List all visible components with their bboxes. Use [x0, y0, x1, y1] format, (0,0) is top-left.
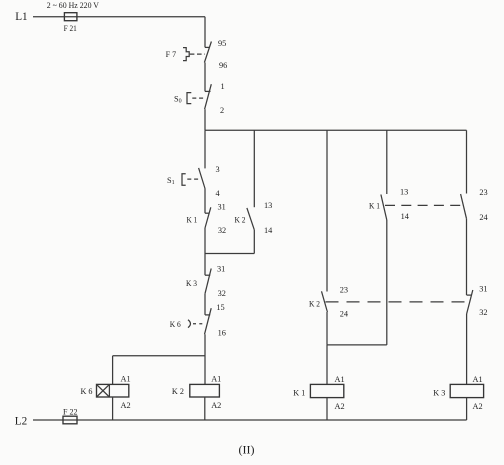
- svg-text:K 1: K 1: [293, 388, 305, 398]
- svg-text:A1: A1: [121, 374, 131, 383]
- svg-text:K 2: K 2: [172, 386, 184, 396]
- wire bus to S1: [204, 130, 206, 168]
- wire junction to K1 coil: [326, 345, 328, 385]
- svg-text:A2: A2: [211, 401, 221, 410]
- svg-text:A2: A2: [335, 402, 345, 411]
- svg-text:95: 95: [218, 39, 226, 48]
- svg-text:15: 15: [216, 303, 224, 312]
- wire bus corner to K1 23-24: [466, 130, 468, 193]
- wire L2 bus: [33, 419, 467, 421]
- dashed link K6: [193, 323, 204, 325]
- svg-text:2 ~ 60 Hz 220 V: 2 ~ 60 Hz 220 V: [47, 1, 100, 10]
- svg-text:K 2: K 2: [309, 299, 320, 309]
- svg-text:F 7: F 7: [166, 50, 177, 59]
- svg-text:S0: S0: [174, 94, 182, 104]
- wire L1 corner drop to F7: [204, 17, 206, 48]
- contact S1 NO 3-4: [199, 168, 205, 189]
- svg-text:31: 31: [479, 284, 487, 293]
- contact S0 NC 1-2: [205, 84, 212, 109]
- svg-text:F 22: F 22: [63, 408, 78, 417]
- wire top bus: [205, 129, 467, 131]
- svg-text:1: 1: [221, 82, 225, 91]
- svg-text:K 2: K 2: [235, 214, 246, 224]
- pushbutton actuator S1: [182, 174, 186, 186]
- wire K1 coil to L2: [326, 398, 328, 420]
- wire K1 aux to junction: [204, 228, 206, 254]
- wire K3 coil to L2: [466, 398, 468, 420]
- svg-text:A2: A2: [473, 402, 483, 411]
- svg-text:23: 23: [479, 188, 487, 197]
- wire K2 branch drop: [253, 130, 255, 207]
- dashed linkage K2 contacts: [326, 301, 465, 303]
- svg-text:31: 31: [218, 202, 226, 211]
- svg-text:(II): (II): [239, 443, 255, 457]
- svg-text:A2: A2: [121, 401, 131, 410]
- svg-text:K 6: K 6: [170, 319, 181, 329]
- wire K1 branch join: [327, 344, 387, 346]
- contact K1 NC 31-32: [205, 207, 211, 228]
- fuse F22: [63, 416, 77, 424]
- contact K2 NO 13-14: [247, 208, 254, 230]
- svg-text:24: 24: [340, 310, 349, 319]
- contact K2 NO 23-24: [322, 291, 328, 312]
- svg-text:32: 32: [479, 308, 487, 317]
- pushbutton actuator S0: [187, 93, 191, 104]
- svg-text:16: 16: [218, 328, 226, 337]
- contact K3 NC 31-32: [205, 269, 211, 294]
- coil K6 timer: [97, 384, 129, 397]
- wire K6 contact to K2 coil: [204, 334, 206, 384]
- svg-text:13: 13: [400, 188, 408, 197]
- wire K2 contact to junction: [326, 312, 328, 345]
- coil K2: [190, 384, 220, 397]
- timer device K6 arc: [188, 320, 190, 328]
- svg-text:24: 24: [479, 213, 488, 222]
- wire K2 coil to L2: [204, 397, 206, 420]
- svg-text:14: 14: [264, 226, 273, 235]
- dashed link F7: [190, 53, 205, 55]
- wire K6 coil drop: [112, 356, 114, 385]
- svg-text:14: 14: [401, 212, 410, 221]
- wire branch to K6 coil: [113, 355, 205, 357]
- wire bus to K2 maintain branch: [326, 130, 328, 291]
- wire K2 branch bottom: [253, 230, 255, 254]
- svg-text:K 3: K 3: [186, 278, 197, 288]
- svg-text:A1: A1: [335, 375, 345, 384]
- svg-text:2: 2: [220, 106, 224, 115]
- svg-text:F 21: F 21: [64, 24, 77, 33]
- svg-text:K 3: K 3: [433, 388, 445, 398]
- svg-text:K 6: K 6: [81, 386, 93, 396]
- svg-text:K 1: K 1: [369, 201, 380, 211]
- contact K2 NC 31-32: [467, 290, 473, 314]
- svg-text:A1: A1: [211, 374, 221, 383]
- dashed link S1: [187, 178, 200, 180]
- wire 23-24 to 31-32: [466, 219, 468, 295]
- svg-text:23: 23: [340, 285, 348, 294]
- wire bus to K1 aux branch: [386, 130, 388, 194]
- wire junction to K3: [204, 254, 206, 276]
- contact K1 NO 23-24: [461, 194, 467, 219]
- wire F7 to S0: [204, 63, 206, 92]
- dashed linkage K1 contacts: [385, 204, 461, 206]
- overload device F7: [183, 48, 189, 61]
- coil K1: [310, 384, 343, 397]
- coil K3: [450, 384, 483, 397]
- svg-text:L1: L1: [15, 11, 27, 23]
- svg-text:32: 32: [218, 226, 226, 235]
- wire K1 aux branch bottom: [386, 220, 388, 345]
- svg-text:31: 31: [217, 264, 225, 273]
- wire S1 to K1 aux: [204, 189, 206, 214]
- wire L1 bus: [33, 16, 205, 18]
- svg-text:A1: A1: [473, 375, 483, 384]
- contact K6 timed NC 15-16: [205, 308, 212, 334]
- svg-text:L2: L2: [15, 415, 27, 427]
- wire S0 to top bus: [204, 109, 206, 130]
- svg-text:K 1: K 1: [187, 214, 198, 224]
- svg-text:S1: S1: [167, 176, 175, 186]
- contact K1 NO 13-14: [381, 195, 387, 221]
- wire parallel return: [205, 253, 254, 255]
- svg-text:3: 3: [216, 165, 220, 174]
- fuse F21: [64, 13, 77, 21]
- svg-text:32: 32: [218, 289, 226, 298]
- contact F7 NC 95-96: [204, 42, 211, 63]
- svg-text:96: 96: [219, 61, 227, 70]
- wire 31-32 to K3 coil: [466, 314, 468, 384]
- wire K3 to K6 contact: [204, 294, 206, 315]
- wire K6 coil to L2: [112, 397, 114, 420]
- dashed link S0: [192, 97, 203, 99]
- svg-text:4: 4: [216, 189, 221, 198]
- svg-text:13: 13: [264, 201, 272, 210]
